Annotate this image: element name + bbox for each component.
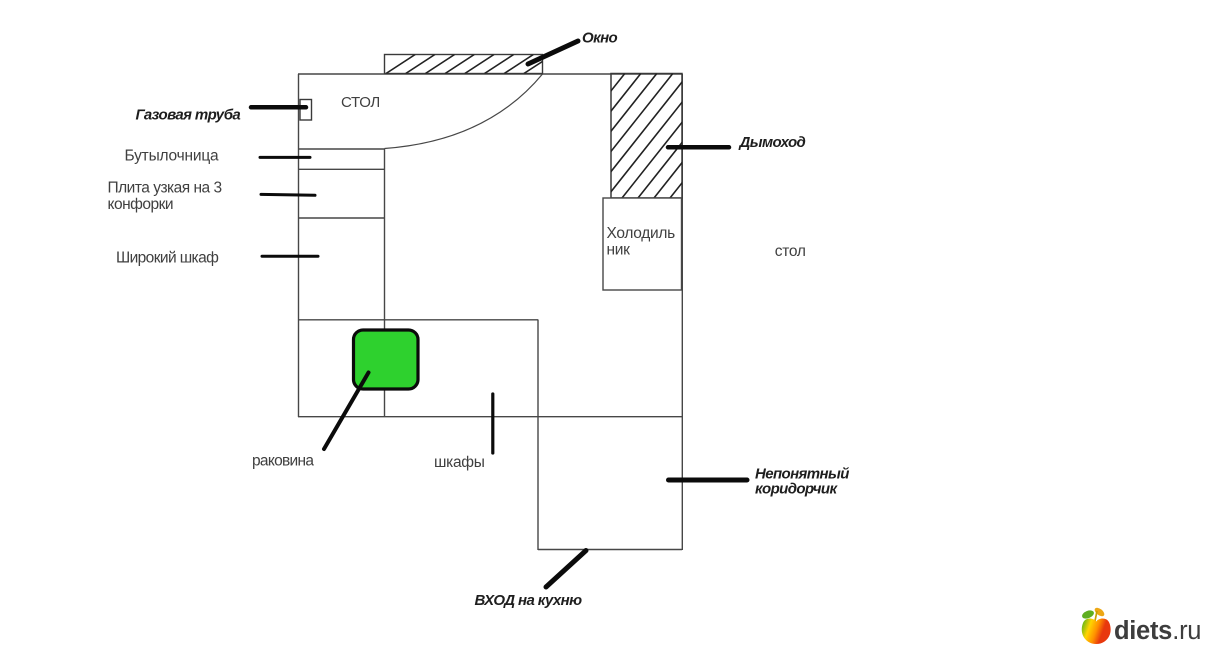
wire: shelf divider 3	[298, 217, 385, 219]
pointer: ВХОД	[546, 551, 586, 588]
sink green square	[354, 330, 419, 389]
svg-text:Плита узкая на 3: Плита узкая на 3	[108, 179, 222, 196]
chimney hatched box	[526, 74, 785, 199]
wire: bottom wall	[298, 416, 682, 418]
apple stem	[1095, 611, 1097, 621]
svg-text:ник: ник	[607, 241, 631, 258]
gas pipe box	[300, 100, 312, 121]
svg-text:.ru: .ru	[1172, 617, 1201, 645]
apple leaf green	[1081, 609, 1095, 620]
svg-text:шкафы: шкафы	[434, 454, 485, 471]
wire: curved counter edge	[385, 74, 543, 149]
svg-text:Холодиль: Холодиль	[607, 225, 676, 242]
svg-text:конфорки: конфорки	[108, 196, 174, 213]
svg-text:стол: стол	[775, 243, 806, 260]
pointer: Бутылочница	[260, 156, 310, 159]
pointer: Широкий шкаф	[262, 255, 318, 258]
wire: left wall	[298, 74, 300, 417]
apple body	[1082, 618, 1111, 644]
pointer: раковина	[324, 373, 369, 450]
window W1 hatched box	[385, 55, 573, 74]
wire: corridor bottom wall	[538, 549, 682, 551]
diets.ru logo	[1081, 606, 1201, 645]
wire: cabinet column right edge	[384, 149, 386, 418]
svg-text:Газовая труба: Газовая труба	[136, 107, 241, 124]
pointer: Газовая труба	[251, 105, 306, 110]
svg-text:коридорчик: коридорчик	[755, 480, 838, 497]
wire: shelf divider 2	[298, 168, 385, 170]
pointer: Окно	[528, 41, 578, 64]
fridge box	[603, 198, 682, 290]
pointer: шкафы	[491, 394, 494, 453]
wire: right wall	[681, 74, 683, 550]
wire: counter top edge	[298, 319, 538, 321]
svg-text:Дымоход: Дымоход	[738, 134, 806, 151]
apple leaf orange	[1093, 606, 1106, 618]
svg-text:Бутылочница: Бутылочница	[125, 147, 219, 164]
pointer: Плита	[261, 193, 315, 197]
pointer: Непонятный коридорчик	[669, 478, 748, 483]
wire: shelf divider 1	[298, 148, 385, 150]
svg-text:раковина: раковина	[252, 453, 314, 470]
svg-text:Окно: Окно	[582, 30, 618, 47]
svg-text:Широкий шкаф: Широкий шкаф	[116, 249, 219, 266]
wire: top wall	[298, 73, 682, 75]
svg-text:ВХОД на кухню: ВХОД на кухню	[475, 592, 583, 609]
svg-text:СТОЛ: СТОЛ	[341, 94, 380, 111]
pointer: Дымоход	[668, 145, 729, 150]
wire: corridor left wall	[537, 320, 539, 551]
svg-text:diets: diets	[1114, 617, 1172, 645]
